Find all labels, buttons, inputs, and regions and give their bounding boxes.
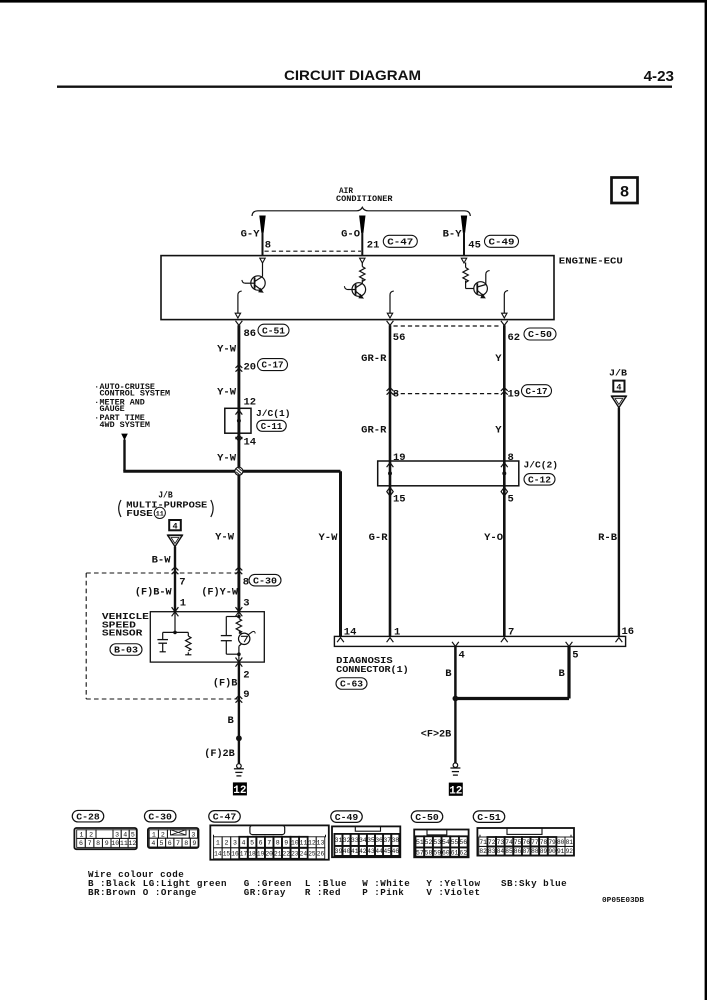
svg-text:88: 88 [531,848,539,855]
svg-text:23: 23 [291,850,299,857]
svg-text:81: 81 [566,839,574,846]
svg-text:79: 79 [548,839,556,846]
svg-text:55: 55 [451,839,459,846]
svg-text:19: 19 [508,389,521,401]
svg-text:7: 7 [267,840,271,847]
svg-text:26: 26 [317,850,325,857]
svg-text:C-47: C-47 [213,812,237,823]
svg-text:56: 56 [393,332,406,344]
svg-text:86: 86 [514,848,522,855]
svg-text:13: 13 [317,840,325,847]
svg-text:11: 11 [120,840,128,847]
svg-text:C-50: C-50 [415,812,439,823]
svg-text:72: 72 [488,839,496,846]
svg-text:C-63: C-63 [340,679,363,690]
svg-text:42: 42 [359,848,367,855]
svg-text:16: 16 [231,850,239,857]
svg-text:Y-O: Y-O [484,532,503,544]
svg-text:SB:Sky blue: SB:Sky blue [501,878,567,889]
svg-text:77: 77 [531,839,539,846]
svg-text:(F)2B: (F)2B [204,748,235,760]
svg-text:C-51: C-51 [477,812,501,823]
svg-text:3: 3 [233,840,237,847]
svg-text:71: 71 [479,839,487,846]
svg-text:5: 5 [160,840,164,847]
svg-text:82: 82 [479,848,487,855]
svg-text:1: 1 [180,597,186,609]
svg-text:24: 24 [300,850,308,857]
svg-text:B-W: B-W [152,554,172,566]
svg-text:C-30: C-30 [148,811,172,822]
svg-text:87: 87 [522,848,530,855]
svg-text:3: 3 [191,831,195,838]
svg-text:Y: Y [495,424,502,436]
svg-text:40: 40 [343,848,351,855]
svg-text:12: 12 [128,840,136,847]
svg-text:7: 7 [508,627,514,639]
svg-text:C-47: C-47 [387,236,413,247]
svg-text:1: 1 [152,831,156,838]
svg-text:8: 8 [620,184,630,202]
svg-text:1: 1 [79,831,83,838]
svg-text:9: 9 [284,840,288,847]
svg-text:14: 14 [244,437,257,449]
svg-text:C-49: C-49 [489,236,515,247]
svg-text:3: 3 [115,831,119,838]
svg-text:<F>2B: <F>2B [421,729,452,740]
svg-text:·: · [94,414,99,423]
svg-text:4: 4 [616,383,621,393]
svg-text:B-Y: B-Y [443,229,463,241]
svg-text:6: 6 [168,840,172,847]
svg-text:SENSOR: SENSOR [102,629,143,639]
svg-text:4: 4 [172,521,177,531]
svg-text:C-50: C-50 [528,329,552,340]
svg-text:4: 4 [151,840,155,847]
svg-text:62: 62 [459,849,467,856]
svg-text:46: 46 [391,848,399,855]
svg-text:14: 14 [214,850,222,857]
svg-text:4: 4 [459,650,465,662]
svg-text:C-30: C-30 [253,575,277,586]
svg-text:7: 7 [176,840,180,847]
svg-text:22: 22 [283,850,291,857]
svg-text:25: 25 [308,850,316,857]
svg-text:G-R: G-R [369,532,389,544]
svg-text:45: 45 [468,240,481,252]
svg-text:35: 35 [367,837,375,844]
svg-text:2: 2 [243,670,249,682]
svg-text:33: 33 [351,837,359,844]
svg-text:(F)B: (F)B [213,678,237,690]
svg-text:75: 75 [514,839,522,846]
svg-text:4: 4 [242,840,246,847]
svg-text:43: 43 [367,848,375,855]
svg-text:8: 8 [96,840,100,847]
svg-text:19: 19 [393,452,406,464]
svg-text:Y: Y [495,353,502,365]
svg-text:2: 2 [161,831,165,838]
svg-text:Y-W: Y-W [318,532,338,544]
svg-text:Y-W: Y-W [215,531,235,543]
svg-text:G-O: G-O [341,229,360,241]
svg-text:57: 57 [416,849,424,856]
svg-text:44: 44 [375,848,383,855]
svg-text:10: 10 [291,840,299,847]
svg-text:11: 11 [299,840,307,847]
svg-text:4: 4 [123,831,127,838]
svg-text:15: 15 [393,494,406,506]
svg-text:ENGINE-ECU: ENGINE-ECU [559,256,623,267]
svg-text:GR-R: GR-R [361,353,387,365]
svg-text:89: 89 [540,848,548,855]
svg-text:78: 78 [540,839,548,846]
svg-text:12: 12 [308,840,316,847]
svg-text:C-17: C-17 [526,386,548,397]
svg-text:1: 1 [394,627,400,639]
svg-text:5: 5 [572,650,578,662]
svg-text:21: 21 [367,240,380,252]
svg-text:12: 12 [449,786,462,798]
svg-text:56: 56 [459,839,467,846]
svg-text:85: 85 [505,848,513,855]
svg-text:C-49: C-49 [335,812,359,823]
svg-text:58: 58 [425,849,433,856]
svg-text:4WD SYSTEM: 4WD SYSTEM [100,421,150,430]
svg-text:16: 16 [622,626,635,638]
svg-text:60: 60 [442,849,450,856]
svg-text:(F)Y-W: (F)Y-W [201,587,239,599]
svg-text:9: 9 [192,840,196,847]
svg-text:8: 8 [243,577,249,589]
svg-text:83: 83 [488,848,496,855]
svg-text:C-17: C-17 [262,360,284,371]
svg-text:Y-W: Y-W [217,344,237,356]
svg-text:8: 8 [276,840,280,847]
svg-text:2: 2 [89,831,93,838]
svg-text:74: 74 [505,839,513,846]
svg-text:8: 8 [393,389,399,401]
svg-text:R :Red: R :Red [305,887,341,898]
svg-text:5: 5 [508,494,514,506]
svg-text:36: 36 [375,837,383,844]
svg-text:1: 1 [216,840,220,847]
svg-text:8: 8 [265,240,271,252]
svg-text:3: 3 [243,597,249,609]
svg-text:73: 73 [497,839,505,846]
svg-text:GAUGE: GAUGE [100,405,125,414]
svg-text:P :Pink: P :Pink [362,887,404,898]
svg-text:B-03: B-03 [114,645,139,656]
svg-text:V :Violet: V :Violet [426,887,480,898]
svg-text:10: 10 [111,840,119,847]
svg-text:7: 7 [179,577,185,589]
svg-text:21: 21 [274,850,282,857]
svg-text:59: 59 [433,849,441,856]
svg-text:76: 76 [522,839,530,846]
svg-text:Y-W: Y-W [217,386,237,398]
svg-text:11: 11 [156,510,164,518]
svg-text:90: 90 [548,848,556,855]
svg-text:C-12: C-12 [528,474,551,485]
svg-text:15: 15 [223,850,231,857]
svg-text:5: 5 [250,840,254,847]
svg-text:38: 38 [391,837,399,844]
svg-text:C-28: C-28 [76,811,100,822]
svg-text:J/C(1): J/C(1) [256,408,291,419]
svg-text:9: 9 [243,689,249,701]
svg-text:18: 18 [248,850,256,857]
svg-text:GR:Gray: GR:Gray [244,887,286,898]
svg-text:G-Y: G-Y [241,229,261,241]
svg-text:J/C(2): J/C(2) [524,460,559,471]
svg-text:Y-W: Y-W [217,452,237,464]
svg-text:B: B [559,668,566,680]
svg-text:O :Orange: O :Orange [143,887,197,898]
svg-text:CIRCUIT DIAGRAM: CIRCUIT DIAGRAM [284,67,421,83]
svg-text:7: 7 [88,840,92,847]
svg-text:FUSE: FUSE [126,508,153,519]
svg-text:4-23: 4-23 [644,68,674,85]
svg-text:20: 20 [244,362,257,374]
svg-text:54: 54 [442,839,450,846]
svg-text:12: 12 [244,396,257,408]
svg-text:34: 34 [359,837,367,844]
svg-text:·: · [94,398,99,407]
svg-text:CONDITIONER: CONDITIONER [336,194,393,204]
svg-text:CONTROL SYSTEM: CONTROL SYSTEM [100,390,171,399]
svg-text:45: 45 [383,848,391,855]
svg-text:(F)B-W: (F)B-W [135,587,173,599]
svg-text:52: 52 [425,839,433,846]
svg-text:14: 14 [344,627,357,639]
svg-text:80: 80 [557,839,565,846]
svg-text:91: 91 [557,848,565,855]
svg-text:92: 92 [566,848,574,855]
svg-text:C-51: C-51 [262,325,285,336]
svg-text:2: 2 [224,840,228,847]
svg-text:12: 12 [233,785,246,797]
svg-text:8: 8 [184,840,188,847]
svg-text:R-B: R-B [598,532,618,544]
svg-text:86: 86 [244,328,257,340]
svg-text:·: · [94,383,99,392]
svg-text:17: 17 [240,850,248,857]
svg-text:GR-R: GR-R [361,424,387,436]
svg-text:62: 62 [508,332,521,344]
svg-text:B: B [445,668,452,680]
svg-text:BR:Brown: BR:Brown [88,887,136,898]
svg-text:5: 5 [131,831,135,838]
svg-text:6: 6 [259,840,263,847]
svg-text:84: 84 [497,848,505,855]
svg-text:9: 9 [105,840,109,847]
svg-text:53: 53 [433,839,441,846]
svg-text:37: 37 [383,837,391,844]
svg-text:CONNECTOR(1): CONNECTOR(1) [336,664,409,675]
svg-text:J/B: J/B [609,368,627,379]
svg-text:0P05E03DB: 0P05E03DB [602,897,644,905]
svg-text:61: 61 [451,849,459,856]
svg-text:51: 51 [416,839,424,846]
svg-text:8: 8 [508,452,514,464]
svg-text:20: 20 [265,850,273,857]
svg-text:41: 41 [351,848,359,855]
svg-text:19: 19 [257,850,265,857]
svg-text:32: 32 [343,837,351,844]
svg-text:B: B [227,715,234,727]
svg-text:6: 6 [79,840,83,847]
svg-text:31: 31 [335,837,343,844]
svg-text:39: 39 [335,848,343,855]
svg-text:C-11: C-11 [261,421,283,432]
